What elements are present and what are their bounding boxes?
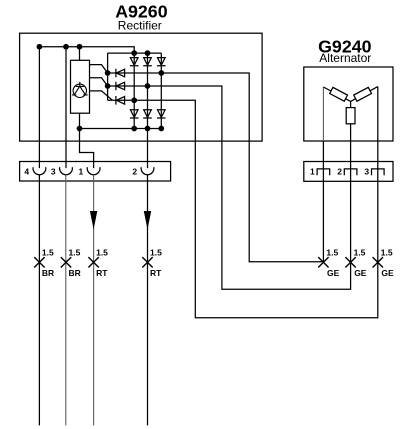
stator block (71, 60, 90, 113)
svg-text:1: 1 (310, 167, 315, 177)
svg-text:Alternator: Alternator (319, 51, 371, 65)
svg-text:3: 3 (364, 167, 369, 177)
wire stator top stub (79, 47, 81, 61)
wire alt phase1 diagonal (323, 87, 350, 101)
wire jog to pin1 (80, 129, 94, 169)
wire alt phase3 diagonal (351, 87, 378, 102)
arrow on RT1 (90, 211, 97, 230)
wire bottom bus (80, 128, 162, 130)
wire RT2 (147, 175, 149, 426)
wire stator bottom stub (79, 113, 81, 128)
arrow on RT2 (144, 211, 151, 230)
pin 3 socket (60, 167, 73, 175)
splice X RT2 (142, 257, 152, 267)
alternator box G9240 (304, 67, 393, 141)
wire alt phase3 vertical (377, 87, 379, 141)
rectifier box U-A9260 (20, 33, 263, 141)
svg-text:1.5: 1.5 (96, 248, 108, 258)
wire phase exit 2 (90, 78, 108, 86)
wire pin3 drop (65, 47, 67, 168)
svg-text:Rectifier: Rectifier (118, 18, 162, 32)
svg-text:1.5: 1.5 (326, 248, 338, 258)
diode V5 (143, 110, 152, 118)
connector strip T right (304, 162, 393, 182)
svg-text:RT: RT (96, 268, 108, 278)
svg-text:1: 1 (79, 167, 84, 177)
svg-text:1.5: 1.5 (381, 248, 393, 258)
wire phase exit 3 (90, 91, 113, 100)
wire alt phase1 vertical (thin) (322, 87, 324, 141)
wire column 2 (147, 53, 149, 168)
pin 1 socket (87, 167, 100, 175)
wire BR1 (38, 175, 40, 426)
diode H3 (116, 96, 125, 105)
svg-text:1.5: 1.5 (354, 248, 366, 258)
wire alt pin3 stub (377, 141, 379, 169)
wire star node stub (350, 101, 352, 107)
diode V3 (157, 58, 166, 66)
diode V6 (157, 110, 166, 118)
wire pin4 drop (38, 47, 40, 168)
pin 2 tab (344, 169, 357, 175)
pin 3 tab (372, 169, 385, 175)
diode H1 (116, 69, 125, 78)
wire BR2 (thin) (65, 175, 67, 426)
gauge + colour labels left (42, 248, 162, 278)
splice X BR2 (61, 257, 71, 267)
wire GE3 run (108, 100, 378, 317)
diode V4 (130, 110, 139, 118)
stator winding symbol (72, 82, 88, 98)
wire GE2 run (108, 86, 351, 289)
svg-text:4: 4 (24, 167, 29, 177)
svg-text:2: 2 (132, 167, 137, 177)
wire alt pin1 stub (322, 141, 324, 169)
svg-text:BR: BR (42, 268, 54, 278)
svg-text:GE: GE (354, 268, 367, 278)
svg-text:2: 2 (337, 167, 342, 177)
svg-text:GE: GE (327, 268, 340, 278)
svg-text:BR: BR (69, 268, 81, 278)
wire top bus (108, 52, 162, 54)
splice X BR1 (34, 257, 44, 267)
pin 1 tab (317, 169, 330, 175)
wire alt phase2 lower (350, 124, 352, 169)
svg-text:3: 3 (51, 167, 56, 177)
wire top feed (39, 47, 134, 53)
connector strip T left (20, 162, 171, 182)
splice X GE2 (345, 257, 355, 267)
junction dots (37, 44, 165, 132)
svg-text:1.5: 1.5 (42, 248, 54, 258)
splice X RT1 (88, 257, 98, 267)
wire RT1 (thin) (93, 175, 95, 426)
diode V1 (130, 58, 139, 66)
diode H2 (116, 82, 125, 91)
svg-text:GE: GE (381, 268, 394, 278)
splice X GE1 (318, 257, 328, 267)
svg-text:RT: RT (150, 268, 162, 278)
gauge + colour labels right (326, 248, 394, 278)
winding L3 (354, 87, 372, 101)
diode V2 (143, 58, 152, 66)
winding L1 (330, 87, 348, 101)
wire column 3 (160, 53, 162, 128)
wire column 1 (133, 53, 135, 128)
wire phase exit 1 (90, 65, 108, 73)
wire GE1 run (108, 73, 324, 262)
winding L2 (346, 108, 355, 124)
svg-text:1.5: 1.5 (69, 248, 81, 258)
splice X GE3 (373, 257, 383, 267)
pin 4 socket (33, 167, 46, 175)
wire left bus (107, 53, 109, 100)
pin 2 socket (141, 167, 154, 175)
svg-text:1.5: 1.5 (150, 248, 162, 258)
